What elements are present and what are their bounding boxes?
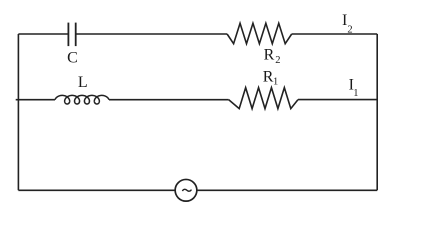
svg-text:1: 1 [273, 76, 278, 87]
svg-text:2: 2 [275, 55, 280, 66]
svg-text:C: C [67, 50, 78, 67]
svg-text:2: 2 [347, 24, 352, 35]
svg-text:1: 1 [353, 88, 358, 99]
svg-text:L: L [78, 74, 88, 91]
svg-text:R: R [264, 47, 275, 64]
